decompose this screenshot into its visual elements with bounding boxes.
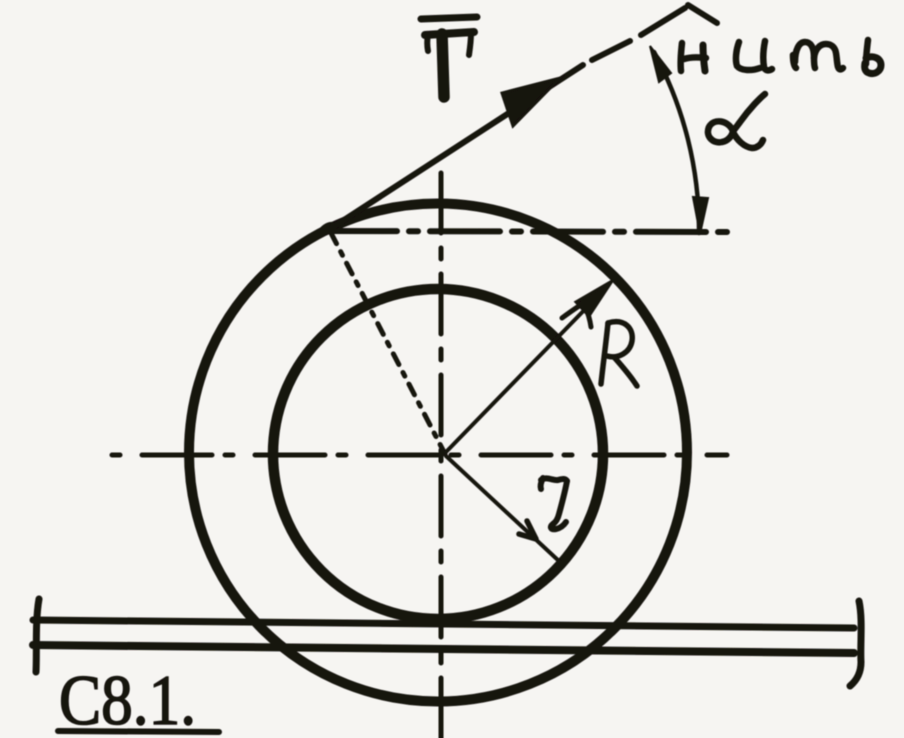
- tangent-level horizontal line (dash-dot): [327, 231, 727, 232]
- angle arc upper arrowhead: [650, 46, 671, 82]
- angle arc lower arrowhead: [693, 197, 708, 234]
- vertical center axis (dash-dot): [439, 173, 444, 738]
- ground rail bottom line: [33, 645, 854, 653]
- label r: [541, 478, 567, 529]
- horizontal center axis (dash-dot): [112, 453, 727, 458]
- label alpha: [708, 94, 765, 148]
- radius r arrow: [446, 456, 560, 562]
- ground rail right end tick: [850, 601, 861, 686]
- label T with overbar: [421, 17, 477, 97]
- ground rail top line: [33, 620, 854, 628]
- figure label underline: [58, 731, 219, 732]
- ground rail left end tick: [36, 599, 39, 672]
- radius R arrow: [446, 298, 596, 452]
- angle alpha arc: [654, 52, 699, 233]
- outer circle (spool flange, radius R): [189, 204, 687, 702]
- label нить (thread): [681, 40, 881, 74]
- vector T arrowhead: [502, 78, 560, 126]
- ink blob at tangent point: [316, 219, 339, 239]
- radius to tangent point (dash-dot): [331, 233, 445, 454]
- inner circle (spool hub, radius r): [273, 289, 603, 619]
- thread: end hook: [688, 5, 717, 23]
- label R: [601, 322, 637, 386]
- svg-text:С8.1.: С8.1.: [59, 662, 196, 738]
- thread: solid segment: [327, 65, 583, 231]
- thread: dashed continuation: [592, 8, 685, 60]
